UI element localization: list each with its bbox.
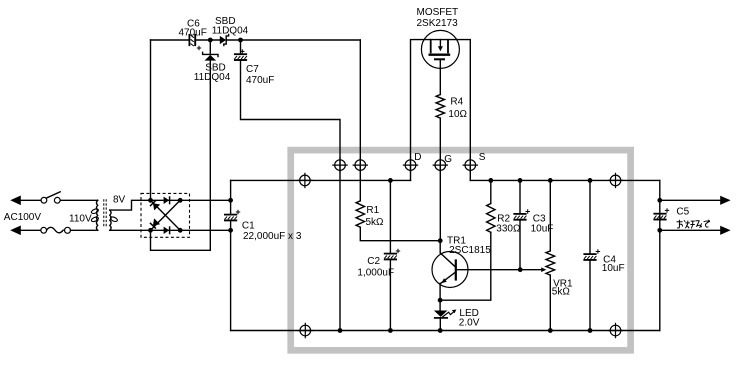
node C3 bottom <box>518 267 523 272</box>
bridge diode top <box>164 197 170 204</box>
terminal C7 gnd <box>335 160 346 171</box>
bridge rectifier dashed box <box>141 193 190 237</box>
resistor R4 <box>436 95 444 119</box>
wire AC hot to switch <box>21 199 41 201</box>
node collector junction <box>438 238 443 243</box>
wire C7 to ground drop <box>241 61 341 331</box>
LED emission arrows <box>442 312 454 317</box>
terminal bus in <box>300 175 311 186</box>
svg-text:470uF: 470uF <box>179 28 207 39</box>
node junction SBD anode <box>208 38 213 43</box>
fuse F1 <box>41 227 47 233</box>
bridge diagonal TL-BR <box>151 200 181 230</box>
svg-text:2.0V: 2.0V <box>459 318 480 329</box>
svg-text:C7: C7 <box>246 64 259 75</box>
label okonomide (Japanese) <box>677 220 710 229</box>
svg-text:330Ω: 330Ω <box>496 224 521 235</box>
svg-text:2SK2173: 2SK2173 <box>417 18 459 29</box>
transformer T1 primary winding <box>97 200 98 230</box>
svg-text:1,000uF: 1,000uF <box>357 267 394 278</box>
potentiometer VR1 branch <box>549 180 551 251</box>
capacitor C1 branch <box>230 180 232 214</box>
wire R4 to G terminal <box>439 118 441 165</box>
mosfet Q1 2SK2173 body <box>421 30 459 68</box>
resistor R1 branch <box>359 40 361 201</box>
svg-text:11DQ04: 11DQ04 <box>212 26 249 37</box>
wire TR1 base to VR1 wiper <box>456 269 542 271</box>
svg-text:C2: C2 <box>367 256 380 267</box>
schottky diode D2 11DQ04 (horizontal) <box>220 36 226 44</box>
wire rectifier BR to C1 <box>180 229 230 231</box>
node gnd bus junctions <box>338 328 343 333</box>
wire return to rectifier BL <box>151 230 211 250</box>
svg-text:AC100V: AC100V <box>4 212 42 223</box>
wire rectifier + riser to top rail <box>150 40 152 200</box>
wire secondary 8V tap to rectifier <box>110 200 151 210</box>
capacitor C4 branch <box>589 180 591 254</box>
svg-text:10uF: 10uF <box>602 263 625 274</box>
capacitor C3 branch <box>519 180 521 214</box>
wire fuse to transformer <box>71 229 98 231</box>
capacitor C7 <box>240 40 242 54</box>
svg-text:R2: R2 <box>497 213 510 224</box>
svg-text:MOSFET: MOSFET <box>417 7 459 18</box>
bridge diagonal BL-TR <box>151 200 181 230</box>
svg-text:R4: R4 <box>450 96 463 107</box>
wire output plus arrow <box>660 199 721 201</box>
node C4 top <box>588 178 593 183</box>
node output minus <box>657 228 662 233</box>
node AC100V hot arrow <box>10 196 21 206</box>
wire rectifier TR to C1 <box>180 199 230 201</box>
svg-text:S: S <box>479 152 486 163</box>
svg-text:D: D <box>414 152 421 163</box>
schottky diode D1 11DQ04 (vertical, pointing up) <box>209 40 211 54</box>
wire C6 to D2 <box>196 39 220 41</box>
wire D2 to corner <box>226 39 360 41</box>
terminal bus out <box>610 175 621 186</box>
wire ground bus bottom <box>231 330 660 332</box>
terminal S <box>465 160 476 171</box>
terminal D <box>405 160 416 171</box>
svg-text:5kΩ: 5kΩ <box>366 217 385 228</box>
mosfet internal symbol <box>431 39 448 41</box>
transformer T1 core <box>104 199 106 226</box>
wire output riser right <box>659 180 661 330</box>
svg-text:R1: R1 <box>366 205 379 216</box>
resistor R2 branch <box>490 180 492 203</box>
bridge bottom edge wire <box>151 229 181 231</box>
svg-text:11DQ04: 11DQ04 <box>194 72 231 83</box>
node junction C7 top <box>238 38 243 43</box>
node C2 top <box>388 178 393 183</box>
wire AC neutral to fuse <box>21 229 41 231</box>
transformer T1 secondary winding <box>110 210 111 230</box>
wire D1 anode down to return <box>209 61 211 251</box>
capacitor C6 <box>188 34 190 46</box>
wire plus bus right segment <box>470 179 660 181</box>
wire G drop to collector node <box>439 165 441 241</box>
svg-text:C3: C3 <box>533 213 546 224</box>
node LED top gnd <box>438 328 443 333</box>
transistor TR1 symbol <box>439 241 441 253</box>
bridge diode on TL-BR diagonal <box>153 203 160 210</box>
node C1 bottom <box>228 228 233 233</box>
svg-text:5kΩ: 5kΩ <box>552 287 571 298</box>
node output plus <box>657 198 662 203</box>
transistor TR1 2SC1815 body <box>432 252 468 288</box>
svg-text:8V: 8V <box>113 195 126 206</box>
switch S1 <box>41 197 47 203</box>
svg-text:10Ω: 10Ω <box>448 109 467 120</box>
bridge diode on BL-TR diagonal <box>153 218 160 225</box>
node VR1 top <box>548 178 553 183</box>
node C1 top <box>228 198 233 203</box>
wire output minus arrow <box>660 229 721 231</box>
wire secondary bottom to rectifier <box>110 229 151 231</box>
wire plus bus left segment <box>231 179 411 181</box>
wire gate lead to R4 <box>439 59 441 94</box>
svg-text:22,000uF x 3: 22,000uF x 3 <box>243 231 302 242</box>
node C3 top <box>518 178 523 183</box>
node R2 top <box>488 178 493 183</box>
terminal gnd out <box>610 325 621 336</box>
wire top rail left segment <box>151 39 190 41</box>
wire switch to transformer <box>60 199 97 201</box>
svg-text:10uF: 10uF <box>531 224 554 235</box>
svg-text:2SC1815: 2SC1815 <box>449 245 491 256</box>
svg-text:G: G <box>444 154 452 165</box>
node AC100V neutral arrow <box>10 226 21 236</box>
svg-text:C5: C5 <box>676 207 689 218</box>
bridge corner nodes <box>148 198 153 203</box>
node emitter junction <box>438 298 443 303</box>
bridge top edge wire <box>151 199 181 201</box>
wire emitter to R2 bottom <box>440 233 491 300</box>
wire drain lead <box>411 40 431 181</box>
terminal G <box>435 160 446 171</box>
svg-text:470uF: 470uF <box>246 75 274 86</box>
board outline (gray box) <box>291 150 631 350</box>
LED branch <box>439 300 441 310</box>
wire source lead <box>448 40 470 181</box>
bridge diode bottom <box>164 227 170 234</box>
capacitor C2 branch <box>389 180 391 253</box>
svg-text:110V: 110V <box>69 214 92 225</box>
svg-text:C1: C1 <box>242 220 255 231</box>
terminal boost <box>355 160 366 171</box>
capacitor C5 <box>653 213 666 215</box>
VR1 wiper arrow <box>541 267 546 272</box>
terminal gnd in <box>300 325 311 336</box>
